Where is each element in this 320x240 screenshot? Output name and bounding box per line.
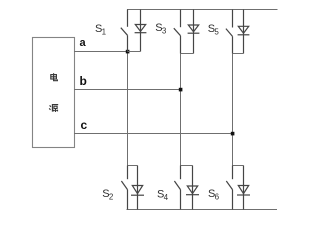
junction node c dot [231,132,235,136]
wire top DC bus [127,9,278,11]
wire S3 cell bottom rail [181,53,194,55]
wire phase b [74,89,181,91]
junction node b dot [179,88,183,92]
wire phase a [74,51,128,53]
switch S4 [174,166,180,210]
svg-text:5: 5 [214,28,219,37]
switch S5 [226,10,233,54]
switch S1 [121,10,128,52]
wire S4 cell top rail [181,165,193,167]
diode D5 [238,10,250,54]
wire leg3 midpoint [232,54,234,166]
switch S6 [226,166,232,210]
svg-text:c: c [81,118,88,132]
wire leg1 midpoint [127,52,129,166]
power source box [33,38,75,148]
diode D3 [188,10,200,54]
svg-text:6: 6 [215,192,220,201]
label 源 (yuan) [49,105,58,112]
junction node a dot [126,50,130,54]
wire S2 cell top rail [128,165,138,167]
wire bottom DC bus [127,209,278,211]
svg-text:1: 1 [102,28,107,37]
switch S3 [174,10,181,54]
svg-text:a: a [80,37,87,49]
svg-text:3: 3 [162,26,167,35]
svg-text:4: 4 [164,193,169,202]
svg-text:2: 2 [109,192,114,201]
wire S1 cell bottom rail [128,51,141,53]
wire phase c [74,133,233,135]
wire S5 cell bottom rail [233,53,244,55]
diode D2 [131,166,144,210]
diode D4 [186,166,199,210]
switch S2 [121,166,127,210]
wire leg2 midpoint [180,54,182,166]
diode D1 [135,10,147,52]
diode D6 [237,166,250,210]
label 电 (dian) [51,73,58,81]
svg-text:b: b [80,74,87,88]
wire S6 cell top rail [233,165,244,167]
